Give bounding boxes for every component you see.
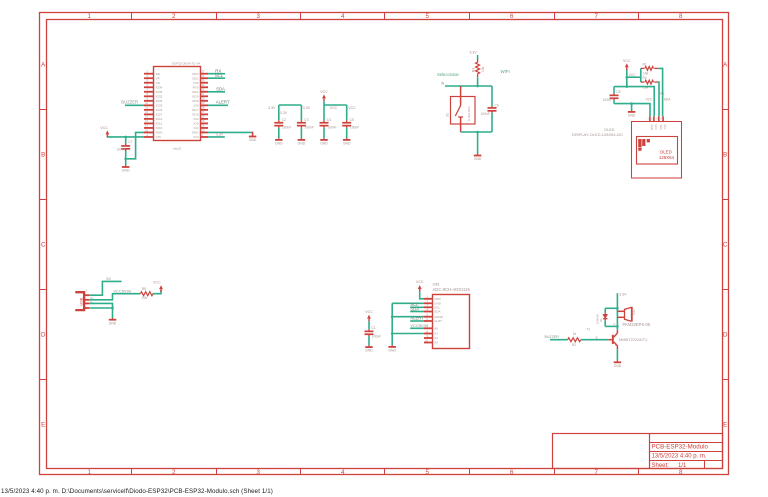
svg-text:3: 3 — [257, 13, 261, 20]
svg-text:IO22: IO22 — [192, 76, 199, 80]
wire A1 pin — [392, 333, 424, 335]
wire BUZZER to R — [550, 339, 568, 341]
svg-text:VCC: VCC — [365, 310, 373, 314]
wire to ground — [477, 132, 479, 154]
svg-text:1: 1 — [88, 469, 92, 476]
switch S1 pin bottom — [460, 117, 462, 132]
junction loop bottom — [616, 325, 619, 328]
switch S1 box — [451, 97, 476, 125]
svg-text:IO21: IO21 — [192, 90, 199, 94]
svg-text:OLED: OLED — [660, 150, 672, 155]
svg-text:5V: 5V — [106, 277, 111, 281]
svg-text:IO5: IO5 — [194, 104, 199, 108]
svg-text:PCB-ESP32-Modulo: PCB-ESP32-Modulo — [652, 444, 709, 451]
svg-text:IO18: IO18 — [192, 99, 199, 103]
svg-text:R3: R3 — [472, 68, 476, 72]
svg-text:VCC5V00: VCC5V00 — [410, 323, 429, 328]
wire VCC branch to resistors — [627, 76, 641, 78]
svg-text:SCL: SCL — [215, 73, 224, 78]
svg-text:IO23: IO23 — [192, 72, 199, 76]
supply VCC arrow ADC — [416, 280, 424, 292]
svg-text:R5: R5 — [142, 287, 146, 291]
supply VCC arrow USB — [153, 280, 163, 292]
wire ADDR pin — [392, 316, 424, 318]
USB connector X1 — [75, 292, 84, 310]
svg-text:ESP32-DEVKITC-V4: ESP32-DEVKITC-V4 — [172, 62, 200, 66]
ground C1 — [368, 345, 370, 346]
svg-text:D: D — [41, 331, 46, 338]
svg-text:IO26: IO26 — [156, 108, 163, 112]
svg-text:B: B — [41, 152, 45, 159]
junction bottom rail — [476, 131, 479, 134]
junction C7/GND-pin wire — [124, 158, 127, 161]
svg-text:A: A — [723, 62, 728, 69]
ADC U$1 box — [433, 295, 470, 349]
capacitor C8 — [613, 87, 615, 94]
svg-text:VCC: VCC — [100, 126, 108, 130]
ground OLED — [631, 110, 633, 111]
svg-text:IO25: IO25 — [156, 104, 163, 108]
svg-text:C8: C8 — [616, 90, 620, 94]
svg-text:GND: GND — [614, 364, 622, 368]
svg-text:C2: C2 — [282, 118, 286, 122]
svg-text:3.3V: 3.3V — [470, 51, 478, 55]
svg-text:VCC: VCC — [623, 59, 631, 63]
svg-text:E: E — [41, 421, 45, 428]
svg-text:SDA: SDA — [410, 306, 419, 311]
wire VCC down — [626, 70, 628, 87]
svg-text:A0: A0 — [434, 327, 438, 331]
frame inner border — [47, 20, 723, 469]
svg-text:6: 6 — [510, 13, 514, 20]
wire net SCL from IO22 — [208, 77, 225, 79]
svg-text:C3: C3 — [304, 118, 308, 122]
svg-text:100nF: 100nF — [372, 334, 381, 338]
svg-text:VCC: VCC — [629, 73, 636, 77]
svg-text:VCC: VCC — [416, 280, 424, 284]
svg-text:3V3: 3V3 — [193, 135, 199, 139]
capacitor C4 — [323, 105, 325, 120]
svg-text:SCL: SCL — [659, 91, 665, 95]
svg-text:IO27: IO27 — [156, 113, 163, 117]
svg-text:1k: 1k — [573, 332, 577, 336]
svg-text:A2: A2 — [434, 336, 438, 340]
svg-text:WIFI: WIFI — [501, 69, 510, 74]
svg-text:ALERT: ALERT — [410, 316, 424, 321]
capacitor C3 — [300, 105, 302, 120]
svg-text:TX0: TX0 — [193, 81, 199, 85]
junction A1 — [391, 332, 394, 335]
svg-text:IO12: IO12 — [156, 122, 163, 126]
svg-text:EN: EN — [156, 72, 160, 76]
svg-text:3.3V: 3.3V — [280, 111, 288, 115]
capacitor C7 — [125, 137, 127, 144]
svg-text:DISPLAY-OLED-128X64-I2C: DISPLAY-OLED-128X64-I2C — [572, 132, 623, 137]
svg-text:B: B — [723, 152, 727, 159]
svg-text:GND: GND — [365, 349, 373, 353]
svg-text:5: 5 — [426, 13, 430, 20]
svg-text:ALRT: ALRT — [434, 319, 442, 323]
wire GND pin — [392, 302, 424, 304]
svg-text:IO14: IO14 — [156, 117, 163, 121]
svg-text:IO34: IO34 — [156, 85, 163, 89]
junction R3/rail — [476, 85, 479, 88]
svg-text:3: 3 — [656, 118, 658, 121]
svg-text:esp32: esp32 — [173, 146, 182, 150]
supply VCC arrow at ESP32 — [100, 126, 109, 137]
svg-text:SDA: SDA — [664, 98, 671, 102]
diode D1 — [603, 314, 607, 318]
svg-text:B: B — [596, 335, 598, 339]
wire D+ to VUSB rail — [89, 294, 140, 300]
svg-text:VCC: VCC — [654, 125, 658, 131]
svg-text:3.3V: 3.3V — [268, 106, 276, 110]
svg-text:MMBT2222A/T1: MMBT2222A/T1 — [619, 337, 647, 342]
svg-text:IN: IN — [441, 81, 445, 85]
svg-text:GND: GND — [388, 349, 396, 353]
junction USB gnd — [111, 307, 114, 310]
svg-text:GND: GND — [628, 114, 636, 118]
wire R3 to node — [477, 74, 479, 77]
svg-text:SDA: SDA — [216, 87, 225, 92]
svg-text:6: 6 — [510, 469, 514, 476]
wire ALERT ADC — [410, 320, 424, 322]
wire emitter to ground — [616, 346, 618, 350]
svg-text:VIN: VIN — [156, 135, 161, 139]
svg-text:1/1: 1/1 — [678, 463, 687, 469]
wire VIN supply rail — [107, 136, 144, 138]
svg-text:IO13: IO13 — [156, 126, 163, 130]
svg-text:IO19: IO19 — [192, 95, 199, 99]
svg-text:ADC-8CH-ADS1115: ADC-8CH-ADS1115 — [433, 287, 471, 292]
junction VIN/C7 — [124, 136, 127, 139]
svg-text:Sheet:: Sheet: — [652, 463, 670, 469]
svg-text:VCC: VCC — [153, 280, 161, 284]
ESP32 right pin stubs — [201, 73, 209, 75]
svg-text:C6: C6 — [495, 104, 499, 108]
svg-text:C: C — [41, 241, 46, 248]
svg-text:E: E — [723, 421, 727, 428]
wire VCC rail caps C4 C5 — [324, 104, 347, 106]
frame column ticks bottom — [131, 469, 133, 475]
svg-text:1: 1 — [86, 288, 88, 292]
capacitor C5 — [346, 105, 348, 120]
svg-text:10k: 10k — [481, 66, 485, 72]
svg-text:BUZZER: BUZZER — [545, 335, 560, 339]
svg-text:VCC: VCC — [330, 106, 338, 110]
svg-text:BUZZER: BUZZER — [121, 100, 138, 105]
svg-text:C: C — [723, 241, 728, 248]
wire VCC top rail to display — [614, 87, 654, 117]
wire VBUS up stub — [89, 281, 122, 295]
svg-text:2: 2 — [651, 118, 653, 121]
svg-text:GND: GND — [249, 138, 257, 142]
wire GND rail to display — [614, 104, 650, 117]
junction ADDR — [391, 315, 394, 318]
svg-text:GND: GND — [275, 142, 283, 146]
svg-text:R2: R2 — [572, 343, 576, 347]
wire net RX from IO23 — [208, 73, 225, 75]
frame row ticks right — [723, 109, 729, 111]
ESP32 left pin stubs — [144, 73, 154, 75]
svg-text:R1: R1 — [643, 62, 647, 66]
svg-text:IO33: IO33 — [156, 99, 163, 103]
svg-text:100nF: 100nF — [327, 126, 336, 130]
wire R5 to VCC — [153, 290, 161, 294]
svg-text:GND: GND — [474, 157, 482, 161]
svg-text:GND: GND — [650, 125, 654, 131]
svg-text:PKM22EPS-05: PKM22EPS-05 — [623, 322, 651, 327]
svg-text:1: 1 — [647, 118, 649, 121]
wire switch bottom rail — [461, 131, 492, 133]
display screen inner box — [637, 137, 678, 165]
svg-text:3.3V: 3.3V — [303, 106, 311, 110]
svg-text:GND: GND — [122, 169, 130, 173]
USB pin stubs — [84, 294, 89, 296]
ground transistor — [616, 360, 618, 361]
svg-text:3.3V: 3.3V — [619, 293, 627, 297]
wire net ALERT from IO5 — [208, 104, 228, 106]
buzzer PZ1 stubs — [617, 310, 624, 312]
wire 3V3 stub — [208, 136, 225, 138]
wire R2 to SDA — [657, 82, 660, 116]
resistor R5 — [140, 292, 153, 296]
svg-text:4: 4 — [661, 118, 663, 121]
wire GND rail vertical — [391, 303, 393, 345]
wire collector up to 3.3V — [616, 293, 618, 330]
svg-text:GND: GND — [109, 321, 117, 325]
svg-text:100nF: 100nF — [305, 126, 314, 130]
svg-text:100nF: 100nF — [603, 98, 612, 102]
svg-text:IO17: IO17 — [192, 108, 199, 112]
wire net BUZZER from IO25 — [125, 104, 144, 106]
frame column ticks top — [131, 13, 133, 20]
svg-text:USB: USB — [79, 297, 83, 305]
svg-text:100nF: 100nF — [481, 112, 490, 116]
snubber loop bottom wire — [605, 325, 617, 327]
resistor R3 — [476, 62, 480, 74]
svg-text:RX0: RX0 — [193, 85, 199, 89]
wire SDA ADC — [410, 311, 424, 313]
transistor Q1 symbol — [612, 335, 614, 344]
supply VCC arrow above C4 — [320, 90, 328, 101]
switch S1 blade — [455, 106, 460, 117]
svg-text:VCC5V00: VCC5V00 — [113, 288, 132, 293]
svg-text:5: 5 — [426, 469, 430, 476]
svg-text:A3: A3 — [434, 341, 438, 345]
svg-text:IO4: IO4 — [194, 117, 199, 121]
svg-text:C1: C1 — [371, 326, 375, 330]
svg-text:VDD: VDD — [434, 297, 441, 301]
wire resistor left column — [640, 68, 642, 82]
frame row ticks left — [40, 109, 47, 111]
wire R to base — [581, 339, 608, 341]
svg-text:VN: VN — [156, 81, 160, 85]
svg-text:13/5/2023 4:40 p. m. D:\Docum: 13/5/2023 4:40 p. m. D:\Documents\servic… — [1, 488, 273, 495]
switch S1 contact — [458, 116, 463, 118]
supply VCC arrow OLED — [623, 59, 631, 70]
svg-text:SDA: SDA — [659, 125, 663, 131]
svg-text:VCC: VCC — [348, 106, 356, 110]
ESP32 module U1 box — [154, 67, 201, 141]
svg-text:C5: C5 — [350, 118, 354, 122]
svg-text:100nF: 100nF — [350, 126, 359, 130]
svg-text:D: D — [723, 331, 728, 338]
display DISPLAY1 pin stubs — [649, 116, 651, 122]
capacitor C6 — [491, 86, 493, 106]
junction VCC rail — [626, 85, 629, 88]
wire A0 VCC5V00 — [410, 327, 424, 329]
capacitor C2 — [278, 105, 280, 120]
switch S1 pin top — [460, 86, 462, 106]
svg-text:7: 7 — [595, 469, 599, 476]
ADC pin stubs — [424, 298, 433, 300]
svg-text:VCC: VCC — [320, 90, 328, 94]
svg-text:2: 2 — [172, 13, 176, 20]
svg-text:S1: S1 — [445, 113, 449, 117]
title block — [553, 434, 723, 469]
svg-text:IO0: IO0 — [194, 122, 199, 126]
capacitor C1 — [365, 310, 373, 322]
svg-text:A: A — [41, 62, 46, 69]
resistor R2 base — [568, 338, 581, 342]
svg-text:A1: A1 — [434, 332, 438, 336]
svg-text:10k: 10k — [142, 296, 148, 300]
wire to ground stub — [631, 104, 633, 111]
svg-text:GND: GND — [192, 131, 200, 135]
svg-text:13/5/2023 4:40 p. m.: 13/5/2023 4:40 p. m. — [652, 454, 707, 460]
svg-text:IO16: IO16 — [192, 113, 199, 117]
wire net SDA from IO21 — [208, 91, 225, 93]
svg-text:IO35: IO35 — [156, 90, 163, 94]
junction GND rail — [630, 102, 633, 105]
svg-text:GND: GND — [298, 142, 306, 146]
svg-text:G-5E3-DC5: G-5E3-DC5 — [467, 106, 471, 121]
wire GND pin L-shape — [126, 132, 144, 158]
svg-text:GND: GND — [320, 142, 328, 146]
ground below switch — [477, 154, 479, 156]
ground below C7 — [125, 165, 127, 167]
wire VCC to VDD — [420, 292, 424, 299]
svg-text:C4: C4 — [327, 118, 331, 122]
snubber loop top wire — [605, 307, 617, 309]
svg-text:7: 7 — [595, 13, 599, 20]
svg-text:8: 8 — [679, 469, 683, 476]
svg-text:2: 2 — [172, 469, 176, 476]
svg-text:100nF: 100nF — [282, 126, 291, 130]
svg-text:U$1: U$1 — [433, 281, 441, 286]
wire 3.3V rail caps C2 C3 — [279, 104, 302, 106]
wire 3.3V to R3 — [477, 55, 479, 59]
svg-text:1: 1 — [88, 13, 92, 20]
svg-text:GND: GND — [156, 131, 164, 135]
svg-text:T1: T1 — [586, 328, 590, 332]
wire switch top rail — [445, 85, 492, 87]
wire GND pins — [89, 303, 113, 318]
svg-text:R2: R2 — [643, 76, 647, 80]
svg-text:IO2: IO2 — [194, 126, 199, 130]
svg-text:VCC: VCC — [646, 98, 653, 102]
svg-text:GND: GND — [343, 142, 351, 146]
snubber loop left wire — [604, 308, 606, 313]
ground right of ESP32 — [249, 137, 257, 143]
svg-text:PZ1: PZ1 — [632, 309, 636, 315]
svg-text:10k: 10k — [643, 72, 649, 76]
svg-text:C7: C7 — [128, 140, 132, 144]
resistor R1 — [641, 67, 645, 69]
svg-text:Seleccionar: Seleccionar — [437, 72, 459, 77]
svg-text:VP: VP — [156, 76, 160, 80]
svg-text:4: 4 — [341, 13, 345, 20]
svg-text:128X64: 128X64 — [659, 155, 675, 160]
svg-text:8: 8 — [679, 13, 683, 20]
svg-text:3.3V: 3.3V — [216, 133, 224, 137]
ground USB — [112, 318, 114, 319]
svg-text:ALERT: ALERT — [216, 100, 230, 105]
svg-text:100nF: 100nF — [117, 148, 126, 152]
svg-text:D1: D1 — [599, 318, 603, 322]
junction loop top — [616, 307, 619, 310]
wire R1 to SCL — [658, 68, 662, 116]
wire SCL ADC — [410, 306, 424, 308]
display OLED box — [632, 122, 682, 179]
display pixel icon bars — [638, 139, 641, 147]
junction VCC branch — [626, 76, 629, 79]
buzzer PZ1 body — [625, 307, 632, 321]
svg-text:SCL: SCL — [663, 125, 667, 131]
svg-text:4: 4 — [341, 469, 345, 476]
resistor R2 — [641, 81, 645, 83]
svg-text:SDA: SDA — [434, 310, 440, 314]
svg-text:3: 3 — [257, 469, 261, 476]
svg-text:IO32: IO32 — [156, 95, 163, 99]
wire GND pin to ground — [208, 131, 253, 133]
ground ADC — [391, 345, 393, 346]
